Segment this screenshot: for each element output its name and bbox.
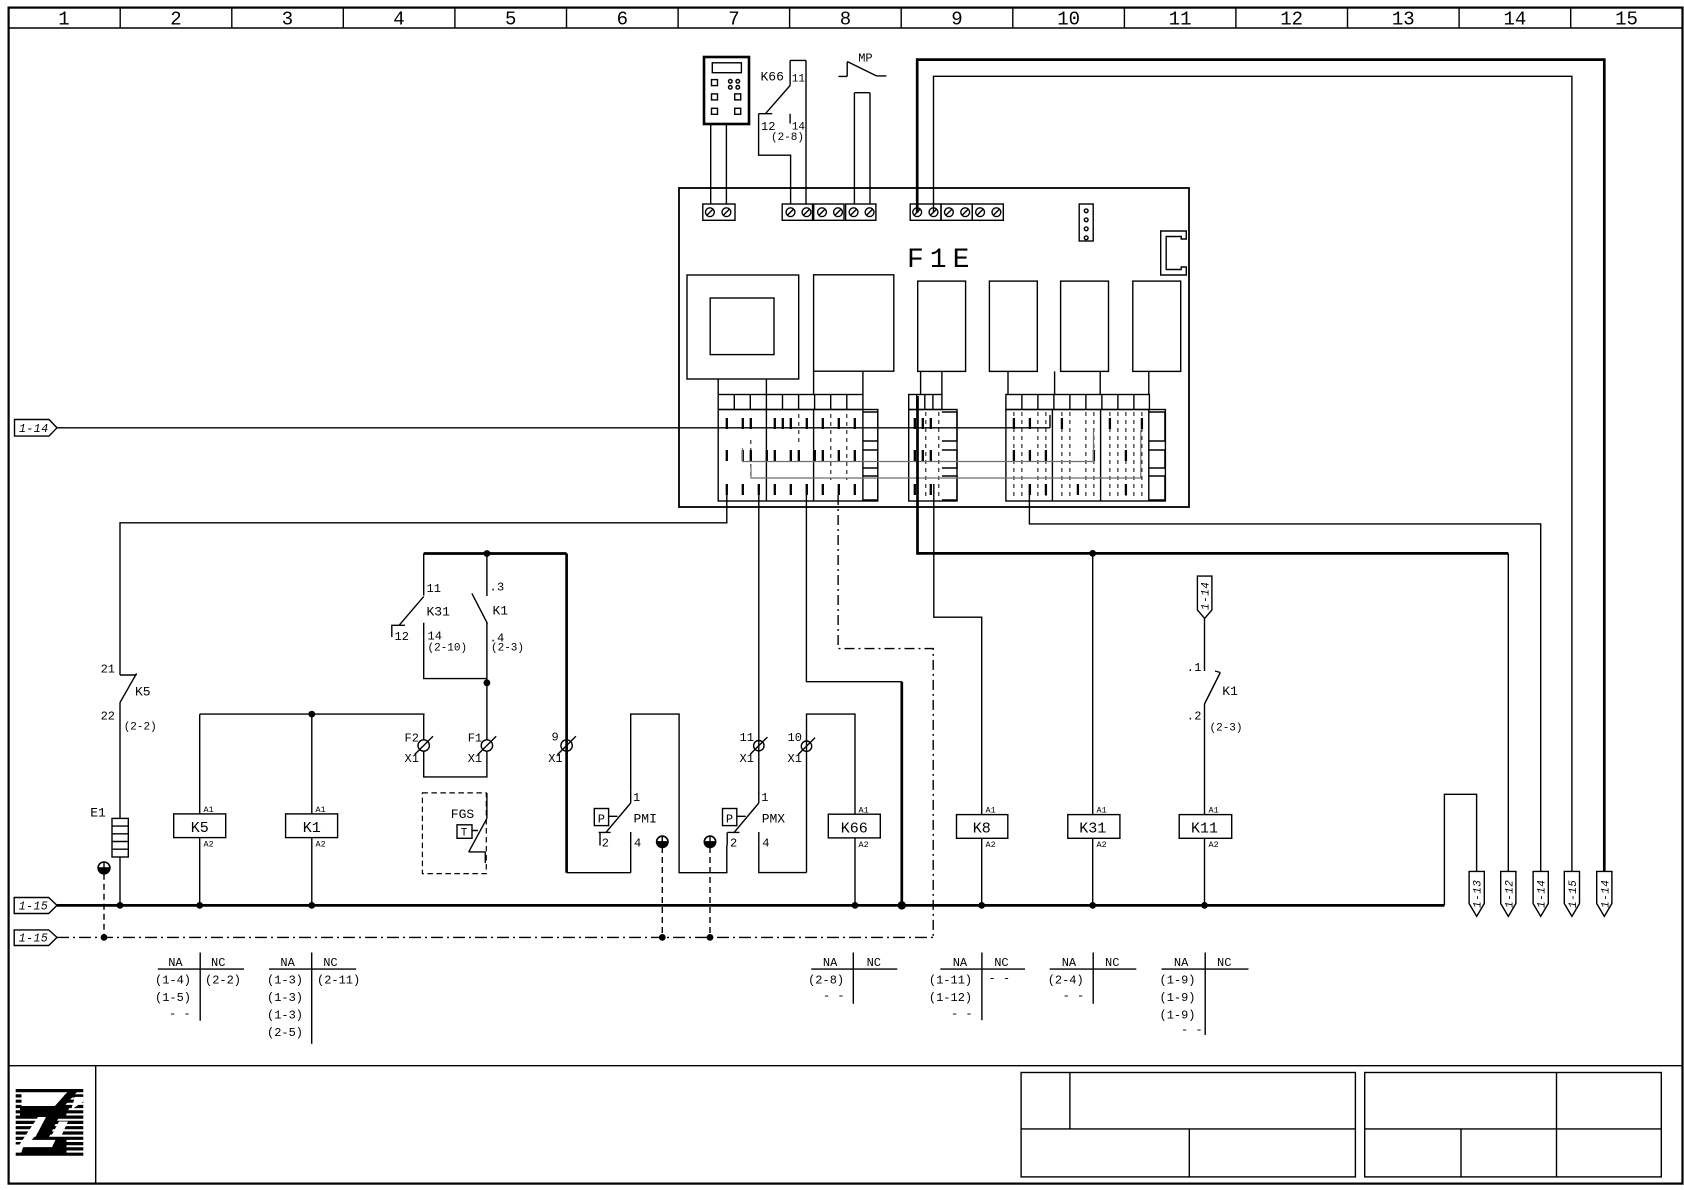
svg-text:9: 9: [552, 731, 559, 745]
svg-text:10: 10: [788, 731, 802, 745]
relay module R5: [1061, 281, 1109, 371]
pin 12 K31: [395, 630, 409, 644]
junction board-bus: [1089, 550, 1096, 557]
svg-text:F1: F1: [468, 732, 482, 746]
connector array C pin dashes: [1014, 418, 1142, 495]
terminal X1-F2: [405, 732, 434, 767]
connector array B pins: [915, 418, 931, 495]
svg-text:9: 9: [951, 9, 962, 31]
pin 2 PMI: [602, 837, 609, 851]
svg-text:(2-2): (2-2): [205, 974, 241, 988]
connector J1 4-pin: [1079, 204, 1093, 241]
svg-text:11: 11: [427, 582, 441, 596]
connector array C side tabs: [1149, 412, 1165, 500]
keypad display unit: [704, 57, 749, 124]
svg-text:NC: NC: [1105, 956, 1119, 970]
flag 1-14 source K11: [1197, 576, 1212, 618]
board trace net 1-14: [679, 415, 1050, 428]
svg-text:2: 2: [602, 837, 609, 851]
wire board to 1-14 flag (3rd): [1029, 484, 1540, 871]
svg-text:P: P: [598, 813, 605, 827]
svg-text:(2-8): (2-8): [808, 974, 844, 988]
svg-text:K5: K5: [191, 820, 209, 837]
wire riser to flag 1-12: [1507, 553, 1509, 871]
contact K66 11-12-14: [759, 60, 806, 125]
label P PMI: [598, 813, 605, 827]
svg-text:A1: A1: [1097, 806, 1107, 816]
pin 11 K31: [427, 582, 441, 596]
crossref (2-3): [491, 643, 524, 655]
crossref table K1: [267, 953, 360, 1044]
svg-text:F1E: F1E: [907, 245, 975, 276]
bus PE shield dash-dot: [57, 936, 933, 938]
wire K8 coil to bus: [981, 838, 983, 905]
contact K31 11-12-14: [391, 554, 424, 639]
svg-text:- -: - -: [823, 989, 845, 1003]
wire PE PMX dashed: [709, 847, 711, 937]
svg-text:A1: A1: [1209, 806, 1219, 816]
connector array A side tabs: [863, 412, 878, 500]
svg-text:PMX: PMX: [762, 812, 786, 827]
board trace T3: [751, 430, 1141, 478]
terminal block TB3: [910, 204, 1003, 220]
svg-text:- -: - -: [989, 972, 1011, 986]
title table B: [1365, 1073, 1662, 1177]
wire PE PMI dashed: [661, 847, 663, 937]
connector comb C: [1006, 395, 1150, 410]
svg-text:(2-2): (2-2): [124, 722, 157, 734]
svg-text:1: 1: [761, 791, 768, 805]
junction node bottom K31/K1: [484, 679, 491, 686]
svg-text:X1: X1: [468, 752, 482, 766]
svg-text:A2: A2: [986, 840, 996, 850]
svg-text:21: 21: [101, 663, 115, 677]
crossref table K66: [808, 953, 897, 1004]
flag 1-15 fourth: [1564, 871, 1580, 916]
svg-text:1-15: 1-15: [19, 901, 49, 914]
svg-text:NA: NA: [280, 956, 295, 970]
wire PE E1 dashed: [103, 874, 105, 938]
wire flag to K1 contact: [1204, 618, 1206, 671]
pin 14: [792, 122, 806, 134]
wire K31-14 to node: [424, 639, 487, 679]
svg-text:4: 4: [762, 837, 769, 851]
junction shield E1: [101, 934, 108, 941]
crossref table K31: [1048, 953, 1137, 1004]
wire thick through board to 1-12 flag: [918, 396, 1509, 553]
wire K66 coil to bus: [854, 838, 856, 906]
svg-text:1-14: 1-14: [1537, 880, 1549, 908]
svg-text:NC: NC: [994, 956, 1008, 970]
svg-text:(1-9): (1-9): [1160, 1009, 1196, 1023]
connector array B body: [909, 410, 957, 502]
svg-text:4: 4: [634, 837, 641, 851]
svg-text:(2-11): (2-11): [317, 974, 360, 988]
svg-text:(1-5): (1-5): [155, 991, 191, 1005]
relay module R3: [918, 281, 966, 371]
svg-text:A1: A1: [316, 805, 326, 815]
svg-text:K1: K1: [493, 604, 509, 619]
heater E1: [112, 818, 128, 857]
wire F2 top to coil line: [423, 714, 425, 740]
svg-text:X1: X1: [740, 752, 754, 766]
junction K1 coil top: [308, 711, 315, 718]
svg-text:K31: K31: [1079, 821, 1106, 838]
svg-text:1-14: 1-14: [1600, 880, 1612, 908]
svg-text:NC: NC: [1217, 956, 1231, 970]
label K1b: [1222, 684, 1238, 699]
board label F1E: [907, 245, 975, 276]
wire net L to flag 1-14 right: [917, 60, 1604, 872]
svg-text:(1-11): (1-11): [929, 974, 972, 988]
svg-text:15: 15: [1615, 9, 1638, 31]
svg-text:- -: - -: [1181, 1023, 1203, 1037]
terminal X1-11: [740, 731, 768, 766]
svg-text:1: 1: [633, 791, 640, 805]
svg-text:MP: MP: [858, 52, 872, 66]
flag 1-15 bus source: [14, 898, 57, 914]
wire bus riser to flag 1-13: [1444, 794, 1476, 905]
junction shield PMX: [707, 934, 714, 941]
terminal X1-F1: [468, 732, 497, 767]
wire MP to TB2: [854, 93, 870, 204]
svg-text:A2: A2: [1097, 840, 1107, 850]
svg-text:NC: NC: [211, 956, 225, 970]
svg-text:NA: NA: [1174, 956, 1189, 970]
svg-text:6: 6: [617, 9, 628, 31]
svg-text:1-15: 1-15: [19, 933, 49, 946]
svg-text:(2-10): (2-10): [428, 643, 468, 655]
label E1: [90, 806, 106, 821]
contact K1 3-4: [472, 554, 488, 683]
svg-text:K66: K66: [761, 70, 784, 85]
pin 2 PMX: [730, 837, 737, 851]
svg-text:X1: X1: [548, 752, 562, 766]
flag 1-15 shield source: [14, 930, 57, 946]
label T: [461, 828, 468, 840]
connector comb A: [718, 395, 863, 410]
svg-text:A1: A1: [986, 806, 996, 816]
svg-text:2: 2: [1194, 710, 1201, 724]
svg-text:1: 1: [1194, 661, 1201, 675]
junction bus E1: [117, 902, 124, 909]
pin 1 PMX: [761, 791, 768, 805]
contact K5 21-22: [120, 673, 137, 818]
svg-text:1-12: 1-12: [1504, 880, 1516, 908]
svg-text:K8: K8: [973, 821, 991, 838]
pin 3 K1: [490, 581, 505, 595]
svg-text:X1: X1: [405, 752, 419, 766]
coil K1: [286, 805, 338, 850]
svg-text:NA: NA: [823, 956, 838, 970]
contact K1 1-2: [1205, 671, 1221, 815]
relay module R4: [989, 281, 1037, 371]
pin 4 PMX: [762, 837, 769, 851]
svg-text:NA: NA: [168, 956, 183, 970]
wire K31 coil to bus: [1092, 838, 1094, 905]
svg-text:PMI: PMI: [634, 812, 657, 827]
pin 11: [792, 74, 806, 86]
svg-text:A2: A2: [316, 840, 326, 850]
flag 1-14 third: [1533, 871, 1549, 916]
label K66: [761, 70, 784, 85]
svg-text:12: 12: [1280, 9, 1303, 31]
svg-text:X1: X1: [788, 752, 802, 766]
svg-text:14: 14: [428, 630, 442, 644]
thermostat FGS: [457, 793, 487, 863]
svg-text:A1: A1: [204, 805, 214, 815]
crossref table K8: [929, 953, 1025, 1022]
connector array A dashed columns: [751, 414, 847, 480]
svg-text:FGS: FGS: [451, 807, 475, 822]
coil K5: [174, 805, 226, 850]
crossref table K5: [155, 953, 244, 1022]
crossref (2-10): [428, 643, 468, 655]
svg-text:E1: E1: [90, 806, 106, 821]
svg-text:(1-9): (1-9): [1160, 991, 1196, 1005]
wire net N to flag 1-15 right: [934, 76, 1572, 871]
crossref (2-3) K1b: [1210, 723, 1243, 735]
junction bus K11: [1201, 902, 1208, 909]
svg-text:11: 11: [740, 731, 754, 745]
junction K1-3 top: [484, 550, 491, 557]
svg-text:(2-5): (2-5): [267, 1026, 303, 1040]
board trace T2: [743, 430, 1094, 462]
label FGS: [451, 807, 475, 822]
wire board to K8 coil: [934, 484, 982, 815]
wire K66-11 to TB2: [805, 60, 807, 204]
svg-text:K11: K11: [1191, 821, 1218, 838]
pressure switch PMI: [594, 791, 630, 845]
svg-text:- -: - -: [1063, 989, 1085, 1003]
flag 1-14 fifth: [1597, 871, 1613, 916]
svg-text:(1-3): (1-3): [267, 1009, 303, 1023]
junction shield PMI: [659, 934, 666, 941]
svg-text:22: 22: [101, 710, 115, 724]
svg-text:5: 5: [505, 9, 516, 31]
wire K11 coil to bus: [1204, 838, 1206, 905]
wire board jog to bus: [806, 484, 901, 682]
label K5 contact: [135, 685, 151, 700]
svg-text:(2-3): (2-3): [491, 643, 524, 655]
svg-text:4: 4: [393, 9, 404, 31]
label K1: [493, 604, 509, 619]
svg-text:K1: K1: [1222, 684, 1238, 699]
wire F1 bottom to F2 bottom: [424, 751, 487, 777]
junction bus K1: [308, 902, 315, 909]
svg-text:NC: NC: [323, 956, 337, 970]
svg-text:K5: K5: [135, 685, 151, 700]
label PMX: [762, 812, 786, 827]
pin 12: [761, 120, 775, 134]
svg-text:2: 2: [730, 837, 737, 851]
coil K11: [1179, 806, 1232, 851]
pin 2 K1b: [1187, 710, 1202, 724]
coil K8: [957, 806, 1008, 851]
svg-text:.: .: [1187, 661, 1194, 675]
flag 1-13: [1469, 871, 1485, 916]
label P PMX: [726, 813, 733, 827]
svg-text:(1-9): (1-9): [1160, 974, 1196, 988]
svg-text:(1-12): (1-12): [929, 991, 972, 1005]
wire board to PMX-1 via X1-11: [758, 484, 760, 794]
wire thick jog down to bus: [900, 682, 903, 906]
terminal block TB1 (keypad): [703, 204, 735, 220]
connector array A pin dashes: [727, 418, 855, 495]
svg-text:NC: NC: [867, 956, 881, 970]
ground PE PMX: [704, 836, 715, 847]
wire bottom to PMI-4: [567, 844, 631, 873]
wire E1 to bus: [119, 857, 121, 905]
pin 22: [101, 710, 115, 724]
label PMI: [634, 812, 657, 827]
junction bus K5: [196, 902, 203, 909]
connector array C body: [1006, 410, 1166, 502]
wire K66-12 to TB2: [759, 125, 791, 204]
wire PMX-4 to X1-10 branch: [759, 714, 855, 873]
wire K31 branch: [1092, 553, 1094, 814]
svg-text:.: .: [1187, 710, 1194, 724]
svg-text:1: 1: [58, 9, 69, 31]
terminal block TB2: [782, 204, 876, 220]
title block: [9, 1066, 1683, 1184]
svg-text:(2-4): (2-4): [1048, 974, 1084, 988]
pin 4 K1: [490, 632, 505, 646]
connector J2 C-bracket: [1161, 231, 1187, 275]
svg-text:T: T: [461, 828, 468, 840]
svg-text:A2: A2: [1209, 840, 1219, 850]
wire PMI-1 loop to PMX-2: [631, 714, 727, 873]
svg-text:1-15: 1-15: [1568, 880, 1580, 908]
crossref (2-2): [124, 722, 157, 734]
title table A: [1021, 1073, 1355, 1177]
wire K5 coil: [199, 714, 201, 905]
svg-text:7: 7: [728, 9, 739, 31]
junction bus K66: [852, 902, 859, 909]
svg-text:12: 12: [395, 630, 409, 644]
connector array A body: [718, 410, 878, 502]
switch MP: [838, 62, 886, 77]
wire K1 coil: [311, 714, 313, 905]
control board F1E outline: [679, 188, 1189, 507]
transformer module on board: [687, 275, 799, 379]
pin 14 K31: [428, 630, 442, 644]
svg-text:13: 13: [1392, 9, 1415, 31]
svg-text:K31: K31: [427, 605, 451, 620]
svg-text:1-14: 1-14: [1201, 582, 1213, 610]
junction bus jog: [898, 901, 906, 909]
pressure switch PMX: [723, 791, 759, 845]
connector array C dashed columns: [1014, 412, 1142, 499]
svg-text:- -: - -: [169, 1007, 191, 1021]
svg-text:NA: NA: [953, 956, 968, 970]
svg-text:(2-8): (2-8): [771, 132, 804, 144]
label K31: [427, 605, 451, 620]
pin 1 K1b: [1187, 661, 1202, 675]
svg-text:3: 3: [497, 581, 504, 595]
svg-text:(1-4): (1-4): [155, 974, 191, 988]
wire node down to X1-F1: [486, 683, 488, 740]
wire 1-14 into board: [57, 427, 679, 429]
svg-text:1-13: 1-13: [1473, 880, 1485, 908]
svg-text:.: .: [490, 581, 497, 595]
svg-text:K66: K66: [841, 820, 868, 837]
svg-text:10: 10: [1057, 9, 1080, 31]
svg-text:11: 11: [1169, 9, 1192, 31]
svg-text:- -: - -: [951, 1007, 973, 1021]
svg-text:A1: A1: [859, 805, 869, 815]
thermostat FGS enclosure: [422, 793, 486, 874]
svg-text:14: 14: [1503, 9, 1526, 31]
ground PE PMI: [657, 836, 668, 847]
wire keypad to TB1: [711, 124, 727, 204]
flag 1-12: [1501, 871, 1517, 916]
junction bus K31: [1089, 902, 1096, 909]
svg-text:A2: A2: [859, 840, 869, 850]
crossref table K11: [1160, 953, 1249, 1038]
svg-text:11: 11: [792, 74, 806, 86]
svg-text:A2: A2: [204, 840, 214, 850]
svg-text:2: 2: [170, 9, 181, 31]
ground PE E1: [98, 862, 110, 874]
wire dash-dot board to shield bus: [838, 495, 933, 937]
pin 4 PMI: [634, 837, 641, 851]
svg-text:3: 3: [282, 9, 293, 31]
wire links modules to connector combs: [718, 371, 1149, 394]
svg-text:(2-3): (2-3): [1210, 723, 1243, 735]
svg-text:(1-3): (1-3): [267, 974, 303, 988]
svg-text:(1-3): (1-3): [267, 991, 303, 1005]
wire coil line K5/K1: [200, 713, 425, 715]
label MP: [858, 52, 872, 66]
bus N main: [57, 904, 1444, 907]
wire board down-left to K5 branch: [120, 484, 727, 675]
pin 21: [101, 663, 115, 677]
svg-text:1-14: 1-14: [19, 423, 49, 436]
coil K66: [828, 805, 880, 850]
manufacturer logo: [13, 1089, 83, 1156]
wire thick node to PMI loop: [565, 554, 568, 873]
svg-text:P: P: [726, 813, 733, 827]
terminal X1-9: [548, 731, 576, 767]
svg-text:8: 8: [840, 9, 851, 31]
svg-text:NA: NA: [1062, 956, 1077, 970]
relay module R2: [814, 275, 894, 371]
node top K31/K1: [424, 552, 567, 555]
junction bus K8: [978, 902, 985, 909]
relay module R6: [1133, 281, 1181, 371]
crossref (2-8): [771, 132, 804, 144]
terminal X1-10: [788, 731, 816, 766]
coil K31: [1068, 806, 1120, 851]
connector comb B: [909, 395, 942, 410]
flag 1-14 left: [15, 420, 58, 437]
pin 1 PMI: [633, 791, 640, 805]
svg-text:F2: F2: [405, 732, 419, 746]
svg-text:K1: K1: [303, 820, 321, 837]
connector array B side tabs: [942, 412, 957, 500]
